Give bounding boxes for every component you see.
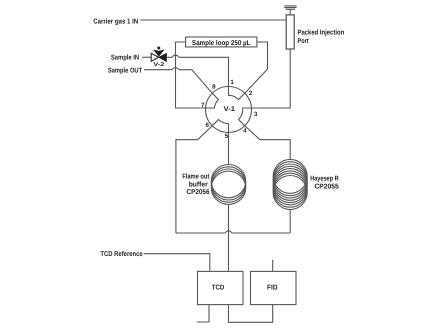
hop on Sample OUT wire xyxy=(172,68,179,70)
valve V-1 groove ports 3-4 xyxy=(239,108,252,126)
svg-text:8: 8 xyxy=(212,83,216,90)
wire: Carrier gas 1 IN to injection port xyxy=(140,19,286,21)
wire: valve port 5 down through flame out buffer to TCD xyxy=(228,133,230,272)
septum symbol stem xyxy=(289,9,291,15)
svg-text:7: 7 xyxy=(201,102,205,109)
FID box xyxy=(251,271,297,304)
hop on Sample IN wire xyxy=(172,55,179,57)
svg-text:Sample OUT: Sample OUT xyxy=(108,67,143,75)
svg-text:4: 4 xyxy=(243,128,247,135)
wire: Hayesep R column bottom to loop xyxy=(289,210,291,234)
svg-text:3: 3 xyxy=(254,111,258,118)
wire: sample loop left to valve port 7 xyxy=(176,42,206,108)
svg-text:V-2: V-2 xyxy=(153,62,164,68)
svg-text:TCD: TCD xyxy=(212,285,225,292)
wire: Sample IN to valve V-2 xyxy=(142,56,151,58)
svg-text:Carrier gas 1 IN: Carrier gas 1 IN xyxy=(93,17,138,25)
valve V-1 groove ports 1-2 xyxy=(229,87,245,100)
svg-text:Hayesep R: Hayesep R xyxy=(310,175,338,182)
svg-text:CP2056: CP2056 xyxy=(187,189,210,196)
svg-text:Packed Injection: Packed Injection xyxy=(298,29,345,37)
svg-text:buffer: buffer xyxy=(189,181,208,189)
sample loop box xyxy=(186,37,257,47)
wire: TCD Reference into TCD xyxy=(144,254,210,272)
svg-text:Port: Port xyxy=(298,38,310,45)
wire: V-2 to valve port 1 (hop over sample loop riser) xyxy=(166,57,228,86)
valve V-2 actuator arrow xyxy=(154,50,163,56)
Hayesep R coil xyxy=(273,159,307,193)
svg-text:2: 2 xyxy=(249,90,253,97)
valve V-2 actuator dot xyxy=(157,47,160,50)
hop on bottom loop wire xyxy=(225,231,232,233)
flame out buffer coil xyxy=(211,165,245,198)
TCD box xyxy=(198,271,244,304)
wire: sample loop right to valve port 2 xyxy=(245,42,268,93)
valve V-1 groove ports 5-6 xyxy=(212,120,228,133)
valve V-2 left triangle xyxy=(151,53,159,61)
wire: TCD vent xyxy=(197,305,209,322)
svg-text:V-1: V-1 xyxy=(224,106,236,113)
svg-text:6: 6 xyxy=(205,122,209,129)
wire: valve port 6 to bottom loop xyxy=(176,126,212,233)
wire: injection port down to valve port 3 xyxy=(251,49,290,108)
wire: FID top stub xyxy=(272,260,274,272)
valve V-2 right triangle xyxy=(159,53,167,61)
svg-text:FID: FID xyxy=(267,285,278,292)
svg-text:Sample IN: Sample IN xyxy=(111,54,139,62)
wire: bottom loop horizontal (hop over buffer line) xyxy=(176,232,290,234)
svg-text:CP2055: CP2055 xyxy=(314,184,338,191)
packed injection port body xyxy=(286,15,294,49)
valve V-1 body circle xyxy=(206,87,252,133)
svg-text:Flame out: Flame out xyxy=(182,172,210,180)
wire: Sample OUT to valve port 8 (hop over sample loop riser) xyxy=(144,70,212,94)
valve V-1 groove ports 7-8 xyxy=(206,93,219,108)
svg-text:TCD Reference: TCD Reference xyxy=(100,250,142,258)
svg-text:5: 5 xyxy=(225,133,229,140)
svg-text:1: 1 xyxy=(230,79,234,86)
svg-text:Sample loop 250 µL: Sample loop 250 µL xyxy=(192,39,251,47)
wire: valve port 4 to Hayesep R column xyxy=(245,126,290,159)
wire: TCD outlet to FID bottom xyxy=(229,305,273,323)
septum symbol bars xyxy=(284,6,296,9)
